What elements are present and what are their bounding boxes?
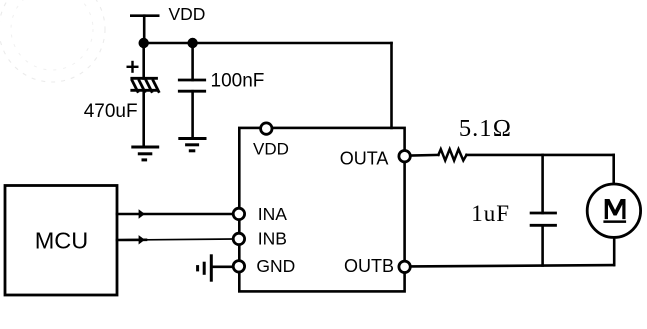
wire GND pin: [211, 265, 233, 268]
MCU box: [5, 186, 117, 296]
capacitor C3 1uF plates: [530, 213, 557, 225]
svg-text:OUTB: OUTB: [344, 256, 394, 276]
pin circle OUTB: [399, 261, 410, 272]
svg-text:1uF: 1uF: [471, 201, 510, 226]
wire OUTB bottom rail: [410, 265, 613, 266]
wire MCU to INB (thick before arrow): [117, 239, 146, 242]
wire arrow to INB (thin): [146, 238, 233, 241]
ground under 470uF: [131, 147, 159, 160]
wire 1uF top: [541, 155, 544, 213]
wire 1uF bottom: [541, 225, 544, 265]
wire 470uF bottom: [142, 91, 145, 147]
wire OUTA to resistor: [410, 154, 438, 157]
wire VDD rail horizontal: [144, 42, 392, 45]
svg-text:OUTA: OUTA: [340, 148, 389, 168]
label motor M (drawn): [605, 199, 626, 219]
IC box U1: [239, 128, 404, 292]
ground at GND pin (sideways): [198, 254, 212, 281]
wire down to motor top: [612, 155, 615, 184]
wire 470uF top: [142, 43, 145, 79]
capacitor C1 470uF plus sign: [128, 62, 138, 72]
svg-text:VDD: VDD: [253, 139, 289, 158]
wire VDD bar to rail: [143, 16, 146, 43]
ground under 100nF: [178, 139, 206, 151]
svg-text:INB: INB: [258, 228, 287, 248]
junction dot at 470uF: [139, 38, 149, 48]
wire motor bottom: [613, 237, 616, 265]
pin circle OUTA: [399, 151, 410, 162]
pin circle INB: [233, 233, 244, 244]
faint watermark circles: [0, 0, 105, 82]
svg-text:VDD: VDD: [169, 4, 206, 24]
wire 100nF top: [191, 43, 194, 80]
svg-text:5.1Ω: 5.1Ω: [459, 115, 512, 142]
junction dot at 100nF: [187, 38, 197, 48]
svg-text:GND: GND: [256, 256, 295, 276]
arrowhead INB: [139, 235, 145, 244]
VDD supply bar: [130, 14, 160, 17]
motor M underline: [603, 220, 626, 223]
wire 100nF bottom: [191, 91, 194, 138]
wire resistor to motor corner: [467, 154, 614, 157]
svg-text:470uF: 470uF: [84, 101, 138, 122]
capacitor C1 470uF polarized plates: [130, 78, 159, 93]
motor M1 circle: [587, 184, 640, 237]
pin circle GND: [233, 261, 244, 272]
arrowhead INA: [139, 209, 145, 218]
pin circle INA: [233, 208, 244, 219]
wire MCU to INA: [117, 213, 233, 216]
resistor R1 5.1ohm zigzag: [438, 149, 466, 160]
capacitor C2 100nF plates: [178, 80, 206, 91]
wire VDD rail down to IC: [390, 43, 393, 128]
pin circle VDD: [261, 123, 272, 134]
svg-text:INA: INA: [258, 204, 288, 224]
svg-text:100nF: 100nF: [211, 70, 265, 91]
svg-text:MCU: MCU: [35, 227, 89, 253]
